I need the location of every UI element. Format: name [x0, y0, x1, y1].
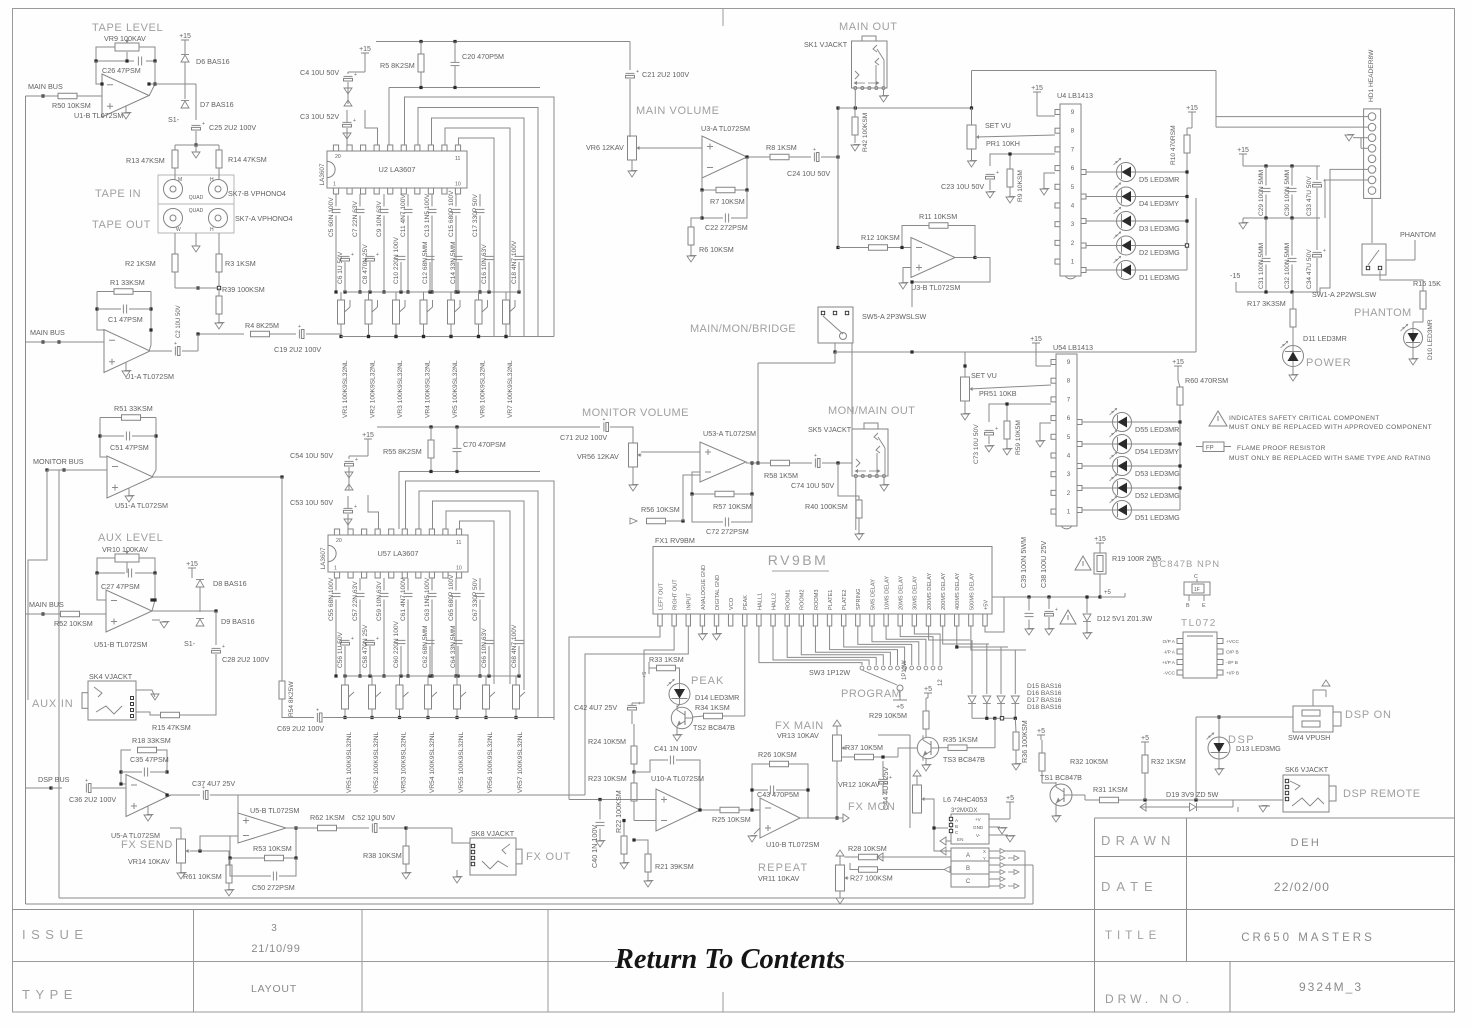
svg-text:SK4 VJACKT: SK4 VJACKT [89, 672, 133, 681]
svg-text:+: + [636, 69, 639, 75]
wire C71 to VR56 [610, 427, 633, 443]
op-amp U1-A [104, 330, 150, 373]
pin ROOM1 [785, 614, 789, 626]
capacitor C10 [397, 255, 406, 257]
svg-text:C30 100N 5MM: C30 100N 5MM [1284, 170, 1291, 216]
svg-text:EN: EN [957, 837, 963, 842]
ground rv9bm pin5 [716, 626, 718, 633]
resistor R32 dsp [1142, 755, 1148, 773]
svg-text:12: 12 [938, 679, 944, 686]
svg-text:5MS DELAY: 5MS DELAY [870, 579, 876, 610]
capacitor C23 [986, 173, 995, 175]
svg-text:SW3 1P12W: SW3 1P12W [809, 668, 850, 677]
resistor R59 [1004, 421, 1010, 439]
svg-text:+: + [353, 118, 356, 124]
svg-text:W: W [176, 227, 181, 233]
svg-text:R10 470RSM: R10 470RSM [1170, 125, 1177, 165]
ground PR1 [971, 149, 973, 160]
svg-text:C25 2U2 100V: C25 2U2 100V [209, 123, 256, 132]
wire C37 right to FX MAIN [210, 794, 238, 796]
capacitor C53 [344, 507, 353, 509]
svg-text:C12 68N 5MM: C12 68N 5MM [422, 241, 429, 284]
svg-text:ROOM1: ROOM1 [786, 589, 792, 610]
capacitor C41 [669, 756, 671, 765]
svg-text:R17 3K3SM: R17 3K3SM [1247, 299, 1286, 308]
wire capbank to HD1 [1320, 169, 1368, 292]
svg-text:REPEAT: REPEAT [758, 862, 808, 874]
wire U2 top pin loops [405, 97, 555, 337]
capacitor C63 [428, 592, 437, 594]
ground U51-A [128, 488, 130, 495]
wire top rail y41 [376, 41, 630, 43]
wire rail y87 [389, 87, 540, 89]
ground U51-B [152, 619, 160, 621]
diode D17 [997, 696, 1005, 703]
svg-text:VR5 100K9SL32NL: VR5 100K9SL32NL [452, 360, 459, 418]
switch SW5-A [818, 307, 853, 343]
svg-text:VR57 100K9SL32NL: VR57 100K9SL32NL [517, 731, 524, 793]
svg-text:VR1 100K9SL32NL: VR1 100K9SL32NL [342, 360, 349, 418]
capacitor C34 [1313, 251, 1322, 253]
pin PEAK [743, 614, 747, 626]
svg-text:D14 LED3MR: D14 LED3MR [695, 693, 739, 702]
svg-text:R11 10KSM: R11 10KSM [919, 212, 957, 221]
svg-text:20MS DELAY: 20MS DELAY [899, 576, 905, 610]
resistor R1 [114, 289, 133, 295]
wire R56 right [666, 520, 683, 522]
svg-text:B: B [1186, 603, 1190, 609]
resistor R57 feedback [715, 491, 734, 497]
pin PLATE1 [827, 614, 831, 626]
svg-text:500MS DELAY: 500MS DELAY [969, 573, 975, 610]
wire R1 feedback loop [97, 291, 114, 293]
svg-text:2: 2 [1067, 490, 1071, 497]
svg-text:22/02/00: 22/02/00 [1274, 880, 1330, 894]
svg-text:3: 3 [1071, 221, 1075, 228]
svg-text:D3 LED3MG: D3 LED3MG [1139, 224, 1180, 233]
capacitor C18 [515, 255, 524, 257]
capacitor C44 [879, 778, 888, 780]
svg-text:200MS DELAY: 200MS DELAY [927, 573, 933, 610]
svg-text:+: + [1323, 248, 1326, 254]
IC RV9BM [653, 547, 992, 615]
svg-text:+15: +15 [1094, 536, 1106, 543]
pin ANALOGUE GND [700, 614, 704, 626]
svg-text:DSP ON: DSP ON [1345, 709, 1392, 721]
svg-text:DATE: DATE [1101, 879, 1159, 894]
svg-text:+V: +V [975, 817, 982, 822]
wire VR6 wiper to U3-A [640, 147, 702, 149]
svg-text:+: + [814, 453, 817, 459]
wire SW4 up [1313, 690, 1326, 706]
svg-text:+15: +15 [1237, 147, 1249, 154]
capacitor C51 [125, 432, 127, 441]
svg-text:+I/P B: +I/P B [1226, 671, 1239, 677]
svg-text:D10 LED3MR: D10 LED3MR [1427, 319, 1434, 360]
svg-text:PR51 10KB: PR51 10KB [979, 389, 1017, 398]
svg-text:3*2MXDX: 3*2MXDX [951, 808, 977, 814]
svg-text:VR7 100K9SL32NL: VR7 100K9SL32NL [507, 360, 514, 418]
svg-text:C43 470P5M: C43 470P5M [757, 790, 799, 799]
potentiometer VR9 [115, 43, 139, 51]
svg-text:+: + [996, 170, 999, 176]
resistor R18 [138, 747, 157, 753]
svg-text:C52 10U 50V: C52 10U 50V [352, 813, 395, 822]
svg-text:+: + [354, 504, 357, 510]
svg-text:C29 100N 5MM: C29 100N 5MM [1258, 170, 1265, 216]
svg-text:AUX LEVEL: AUX LEVEL [98, 532, 163, 544]
svg-text:+: + [995, 426, 998, 432]
flame proof resistor note [1196, 446, 1203, 448]
diode D15 [968, 696, 976, 703]
capacitor C64 [454, 639, 463, 641]
svg-text:U10-B TL072SM: U10-B TL072SM [766, 840, 819, 849]
svg-text:C38 100U 25V: C38 100U 25V [1039, 541, 1048, 588]
pin ROOM3 [813, 614, 817, 626]
resistor R33 [657, 665, 676, 671]
capacitor C36 [85, 784, 87, 793]
svg-text:HALL1: HALL1 [757, 593, 763, 610]
capacitor C33 [1313, 181, 1322, 183]
svg-text:MAIN OUT: MAIN OUT [839, 21, 898, 33]
svg-text:C55 68N 100V: C55 68N 100V [328, 577, 335, 621]
svg-text:-I/P B: -I/P B [1226, 660, 1238, 666]
wire input chain U3-B [837, 157, 839, 248]
potentiometer VR10 [115, 554, 139, 562]
strip column line x548 [547, 910, 549, 1013]
svg-text:+: + [174, 341, 177, 347]
wire D13 up [1218, 717, 1220, 737]
potentiometer VR14 fx send [177, 839, 186, 863]
capacitor C40 [596, 821, 605, 823]
svg-text:+15: +15 [362, 432, 374, 439]
capacitor C11 [404, 208, 413, 210]
svg-text:SK7-B VPHONO4: SK7-B VPHONO4 [228, 189, 286, 198]
svg-text:MUST ONLY BE REPLACED WITH SAM: MUST ONLY BE REPLACED WITH SAME TYPE AND… [1229, 455, 1431, 462]
svg-text:1F: 1F [1194, 587, 1200, 593]
svg-text:5: 5 [1067, 434, 1071, 441]
svg-text:C51 47PSM: C51 47PSM [110, 443, 149, 452]
ground C39 [1025, 629, 1033, 635]
svg-text:S1-: S1- [168, 115, 180, 124]
wire C25 down to tape connectors [195, 131, 197, 145]
svg-text:+VCC: +VCC [1226, 639, 1239, 645]
svg-text:+: + [355, 457, 358, 463]
wires U54 to LEDs [1077, 420, 1082, 425]
svg-text:C32 100N 5MM: C32 100N 5MM [1284, 243, 1291, 289]
svg-text:11: 11 [455, 156, 460, 162]
svg-text:D54 LED3MY: D54 LED3MY [1135, 447, 1179, 456]
svg-text:D19 3V9 ZD 5W: D19 3V9 ZD 5W [1166, 790, 1219, 799]
op-amp U3-B [911, 238, 955, 278]
svg-text:R8 1KSM: R8 1KSM [766, 143, 797, 152]
svg-text:SK7-A VPHONO4: SK7-A VPHONO4 [235, 214, 293, 223]
wire U5-B out [286, 827, 318, 829]
wire D6-D7 [184, 45, 186, 54]
svg-text:O/P B: O/P B [1226, 650, 1239, 656]
svg-text:D53 LED3MG: D53 LED3MG [1135, 469, 1180, 478]
capacitor C68 [515, 639, 524, 641]
svg-text:C27 47PSM: C27 47PSM [101, 582, 140, 591]
switch SW1-A [1362, 244, 1386, 275]
svg-text:LA3607: LA3607 [320, 547, 327, 569]
svg-text:DRW. NO.: DRW. NO. [1105, 992, 1193, 1006]
ground R21 [644, 881, 652, 887]
ground TS1 [1055, 807, 1057, 815]
svg-text:1: 1 [334, 566, 337, 572]
svg-text:R33 1KSM: R33 1KSM [649, 655, 684, 664]
svg-text:TS2 BC847B: TS2 BC847B [693, 723, 735, 732]
svg-text:R53 10KSM: R53 10KSM [253, 844, 292, 853]
svg-text:C68 4N7 100V: C68 4N7 100V [511, 624, 518, 668]
svg-text:E: E [1202, 603, 1206, 609]
ground D13 [1218, 759, 1220, 768]
svg-text:+: + [222, 644, 225, 650]
capacitor C37 [202, 791, 204, 800]
svg-text:C62 68N 5MM: C62 68N 5MM [422, 625, 429, 668]
svg-text:INDICATES SAFETY CRITICAL COMP: INDICATES SAFETY CRITICAL COMPONENT [1229, 415, 1380, 422]
capacitor C57 [356, 592, 365, 594]
svg-text:C65 680P 100V: C65 680P 100V [448, 574, 455, 621]
slider VR4 [420, 300, 427, 324]
svg-text:R13 47KSM: R13 47KSM [126, 156, 165, 165]
capacitor C73 [985, 429, 994, 431]
slider VR2 [365, 300, 372, 324]
resistor R12 [869, 245, 888, 251]
capacitor C62 [426, 639, 435, 641]
wire SK5 down [855, 478, 857, 531]
svg-text:M: M [178, 177, 182, 183]
svg-text:D9 BAS16: D9 BAS16 [221, 617, 255, 626]
svg-text:C22 272PSM: C22 272PSM [705, 223, 748, 232]
svg-text:R55 8K2SM: R55 8K2SM [383, 447, 422, 456]
svg-text:20: 20 [336, 538, 342, 544]
svg-text:C11 4N7 100V: C11 4N7 100V [400, 194, 407, 237]
slider VR51 [342, 685, 349, 709]
diode D9 [196, 619, 204, 626]
fold tick bottom [722, 992, 724, 1012]
wire R50 to op-amp [77, 95, 102, 97]
pin 500MS DELAY [969, 614, 973, 626]
ground C73 [985, 446, 993, 452]
svg-text:C40 1N 100V: C40 1N 100V [590, 825, 599, 868]
svg-text:VR2 100K9SL32NL: VR2 100K9SL32NL [370, 360, 377, 418]
svg-text:C19 2U2 100V: C19 2U2 100V [274, 345, 321, 354]
svg-text:10MS DELAY: 10MS DELAY [884, 576, 890, 610]
wire R13/R14 to phono [174, 168, 176, 180]
wire U10-B out [800, 817, 832, 819]
svg-text:D2 LED3MG: D2 LED3MG [1139, 248, 1180, 257]
capacitor C19 [298, 330, 300, 339]
svg-text:RV9BM: RV9BM [768, 552, 828, 568]
wires rv9bm program pins [759, 626, 862, 665]
capacitor C42 [628, 704, 637, 706]
svg-text:VR14 10KAV: VR14 10KAV [128, 857, 170, 866]
resistor R51 [122, 415, 141, 421]
wire VR13 bottom [836, 761, 838, 818]
svg-text:H: H [210, 177, 214, 183]
LED D51 [1113, 501, 1132, 520]
svg-text:S1-: S1- [184, 639, 196, 648]
potentiometer VR13 [833, 735, 842, 761]
svg-text:DEH: DEH [1291, 837, 1322, 849]
svg-text:6: 6 [1071, 165, 1075, 172]
svg-text:200MS DELAY: 200MS DELAY [941, 573, 947, 610]
svg-text:R14 47KSM: R14 47KSM [228, 155, 267, 164]
svg-text:+15: +15 [1030, 336, 1042, 343]
svg-text:FLAME PROOF RESISTOR: FLAME PROOF RESISTOR [1237, 445, 1326, 452]
svg-text:R60 470RSM: R60 470RSM [1185, 376, 1228, 385]
wire VR bus [341, 336, 554, 338]
mux arrows right [989, 850, 1000, 852]
LED D4 [1117, 187, 1136, 206]
svg-text:C67 330P 50V: C67 330P 50V [472, 578, 479, 621]
svg-text:+: + [638, 701, 641, 707]
svg-text:9: 9 [1067, 359, 1071, 366]
svg-text:C15 680P 100V: C15 680P 100V [448, 190, 455, 237]
svg-text:+15: +15 [1031, 85, 1043, 92]
svg-text:C73 10U 50V: C73 10U 50V [973, 424, 980, 464]
wire rv9bm +5v pin [985, 597, 1004, 632]
resistor R23 [631, 783, 637, 801]
resistor R15 [161, 712, 180, 718]
wire to SK6 [1270, 799, 1283, 801]
svg-text:R16 15K: R16 15K [1413, 279, 1441, 288]
capacitor C61 [404, 592, 413, 594]
ground fx out [456, 870, 458, 876]
wire SET VU 2 [964, 352, 966, 366]
svg-text:3: 3 [271, 923, 277, 934]
svg-text:+5: +5 [642, 672, 648, 678]
pin SPRING [856, 614, 860, 626]
switch SW4 VPUSH [1293, 706, 1333, 732]
wire mux A left [940, 850, 951, 852]
capacitor C66 [485, 639, 494, 641]
svg-text:SK1 VJACKT: SK1 VJACKT [804, 40, 848, 49]
svg-text:MAIN BUS: MAIN BUS [28, 82, 63, 91]
ground R36 [1012, 764, 1020, 770]
svg-text:FP: FP [1206, 446, 1214, 452]
wire rv9bm pin3 input [585, 626, 688, 795]
wire U3-A output [747, 156, 770, 158]
svg-text:20: 20 [335, 154, 341, 160]
slider VR54 [425, 685, 432, 709]
svg-text:VCO: VCO [729, 597, 735, 610]
svg-text:INPUT: INPUT [687, 593, 693, 610]
svg-text:R18 33KSM: R18 33KSM [132, 736, 171, 745]
wire fx main riser [878, 734, 910, 736]
svg-text:+: + [202, 121, 205, 127]
diode D16 [983, 696, 991, 703]
op-amp U53-A [700, 442, 746, 482]
wire U5-A out [170, 794, 200, 796]
capacitor C30 [1288, 187, 1297, 189]
pin ROOM2 [799, 614, 803, 626]
capacitor C29 [1262, 187, 1271, 189]
svg-text:+: + [351, 252, 354, 258]
pin RIGHT OUT [672, 614, 676, 626]
wire R15 right [180, 672, 216, 715]
svg-text:C39 100N 5WM: C39 100N 5WM [1019, 537, 1028, 588]
resistor R34 [704, 713, 723, 719]
pin +5V [983, 614, 987, 626]
svg-text:TITLE: TITLE [1105, 930, 1161, 942]
wire to U51-B [97, 573, 106, 600]
svg-text:SK6 VJACKT: SK6 VJACKT [1285, 765, 1329, 774]
svg-text:R51 33KSM: R51 33KSM [114, 404, 153, 413]
wire C19 to VR bus [270, 333, 296, 335]
svg-text:C57 22N 63V: C57 22N 63V [352, 581, 359, 621]
resistor R60 [1177, 387, 1183, 405]
svg-text:L6 74HC4053: L6 74HC4053 [943, 795, 987, 804]
wire U10-A out [700, 809, 720, 811]
svg-text:C37 4U7 25V: C37 4U7 25V [192, 779, 235, 788]
ground R22 [620, 863, 628, 869]
svg-text:SET VU: SET VU [985, 121, 1011, 130]
LED D53 [1113, 457, 1132, 476]
mux channel C [951, 874, 989, 887]
pin 5MS DELAY [870, 614, 874, 626]
svg-text:7: 7 [1067, 396, 1071, 403]
wire monitor bus vertical [47, 469, 59, 471]
node mon out [836, 461, 839, 464]
svg-text:ROOM2: ROOM2 [800, 589, 806, 610]
svg-text:D6 BAS16: D6 BAS16 [196, 57, 230, 66]
wire VR10 loop [97, 558, 125, 573]
svg-text:C60 220N 100V: C60 220N 100V [393, 620, 400, 668]
wire VR14 wiper to U5-B [190, 851, 229, 865]
wire phono to R2 R3 [174, 233, 176, 254]
op-amp U5-B [238, 813, 286, 843]
svg-text:R57 10KSM: R57 10KSM [713, 502, 752, 511]
svg-text:R32 1KSM: R32 1KSM [1151, 757, 1186, 766]
svg-text:R36 100KSM: R36 100KSM [1020, 720, 1029, 763]
svg-text:DRAWN: DRAWN [1101, 833, 1176, 848]
svg-text:SK8 VJACKT: SK8 VJACKT [471, 829, 515, 838]
wire jack to R15 [136, 690, 155, 697]
svg-text:+: + [354, 72, 357, 78]
slider VR5 [448, 300, 455, 324]
svg-text:U4 LB1413: U4 LB1413 [1057, 91, 1093, 100]
resistor R37 [855, 754, 874, 760]
svg-text:HALL2: HALL2 [771, 593, 777, 610]
wire u57 rail [377, 426, 540, 428]
svg-text:R37 10K5M: R37 10K5M [845, 743, 883, 752]
svg-text:C16 10N 63V: C16 10N 63V [481, 244, 488, 284]
svg-text:+5: +5 [1037, 728, 1045, 735]
phono connector SK7-B [158, 175, 234, 204]
svg-text:MAIN BUS: MAIN BUS [30, 328, 65, 337]
wire SW1 to R16 [1386, 259, 1415, 261]
svg-text:C42 4U7 25V: C42 4U7 25V [574, 703, 617, 712]
wire R11 feedback [902, 226, 929, 248]
resistor R13 [172, 150, 178, 168]
svg-text:VR53 100K9SL32NL: VR53 100K9SL32NL [401, 731, 408, 793]
svg-text:11: 11 [456, 540, 461, 546]
svg-text:U51-A TL072SM: U51-A TL072SM [115, 501, 168, 510]
slider VR55 [454, 685, 461, 709]
wire SW5 to SK5 [851, 343, 853, 429]
svg-text:C35 47PSM: C35 47PSM [130, 755, 169, 764]
svg-text:+15: +15 [1186, 105, 1198, 112]
wire U10-A inputs [569, 799, 656, 801]
svg-text:+5: +5 [1141, 735, 1149, 742]
slider VR7 [503, 300, 510, 324]
svg-text:C36 2U2 100V: C36 2U2 100V [69, 795, 116, 804]
svg-text:R34 1KSM: R34 1KSM [695, 703, 730, 712]
svg-text:VR6 100K9SL32NL: VR6 100K9SL32NL [480, 360, 487, 418]
svg-text:-I/P A: -I/P A [1163, 650, 1175, 656]
